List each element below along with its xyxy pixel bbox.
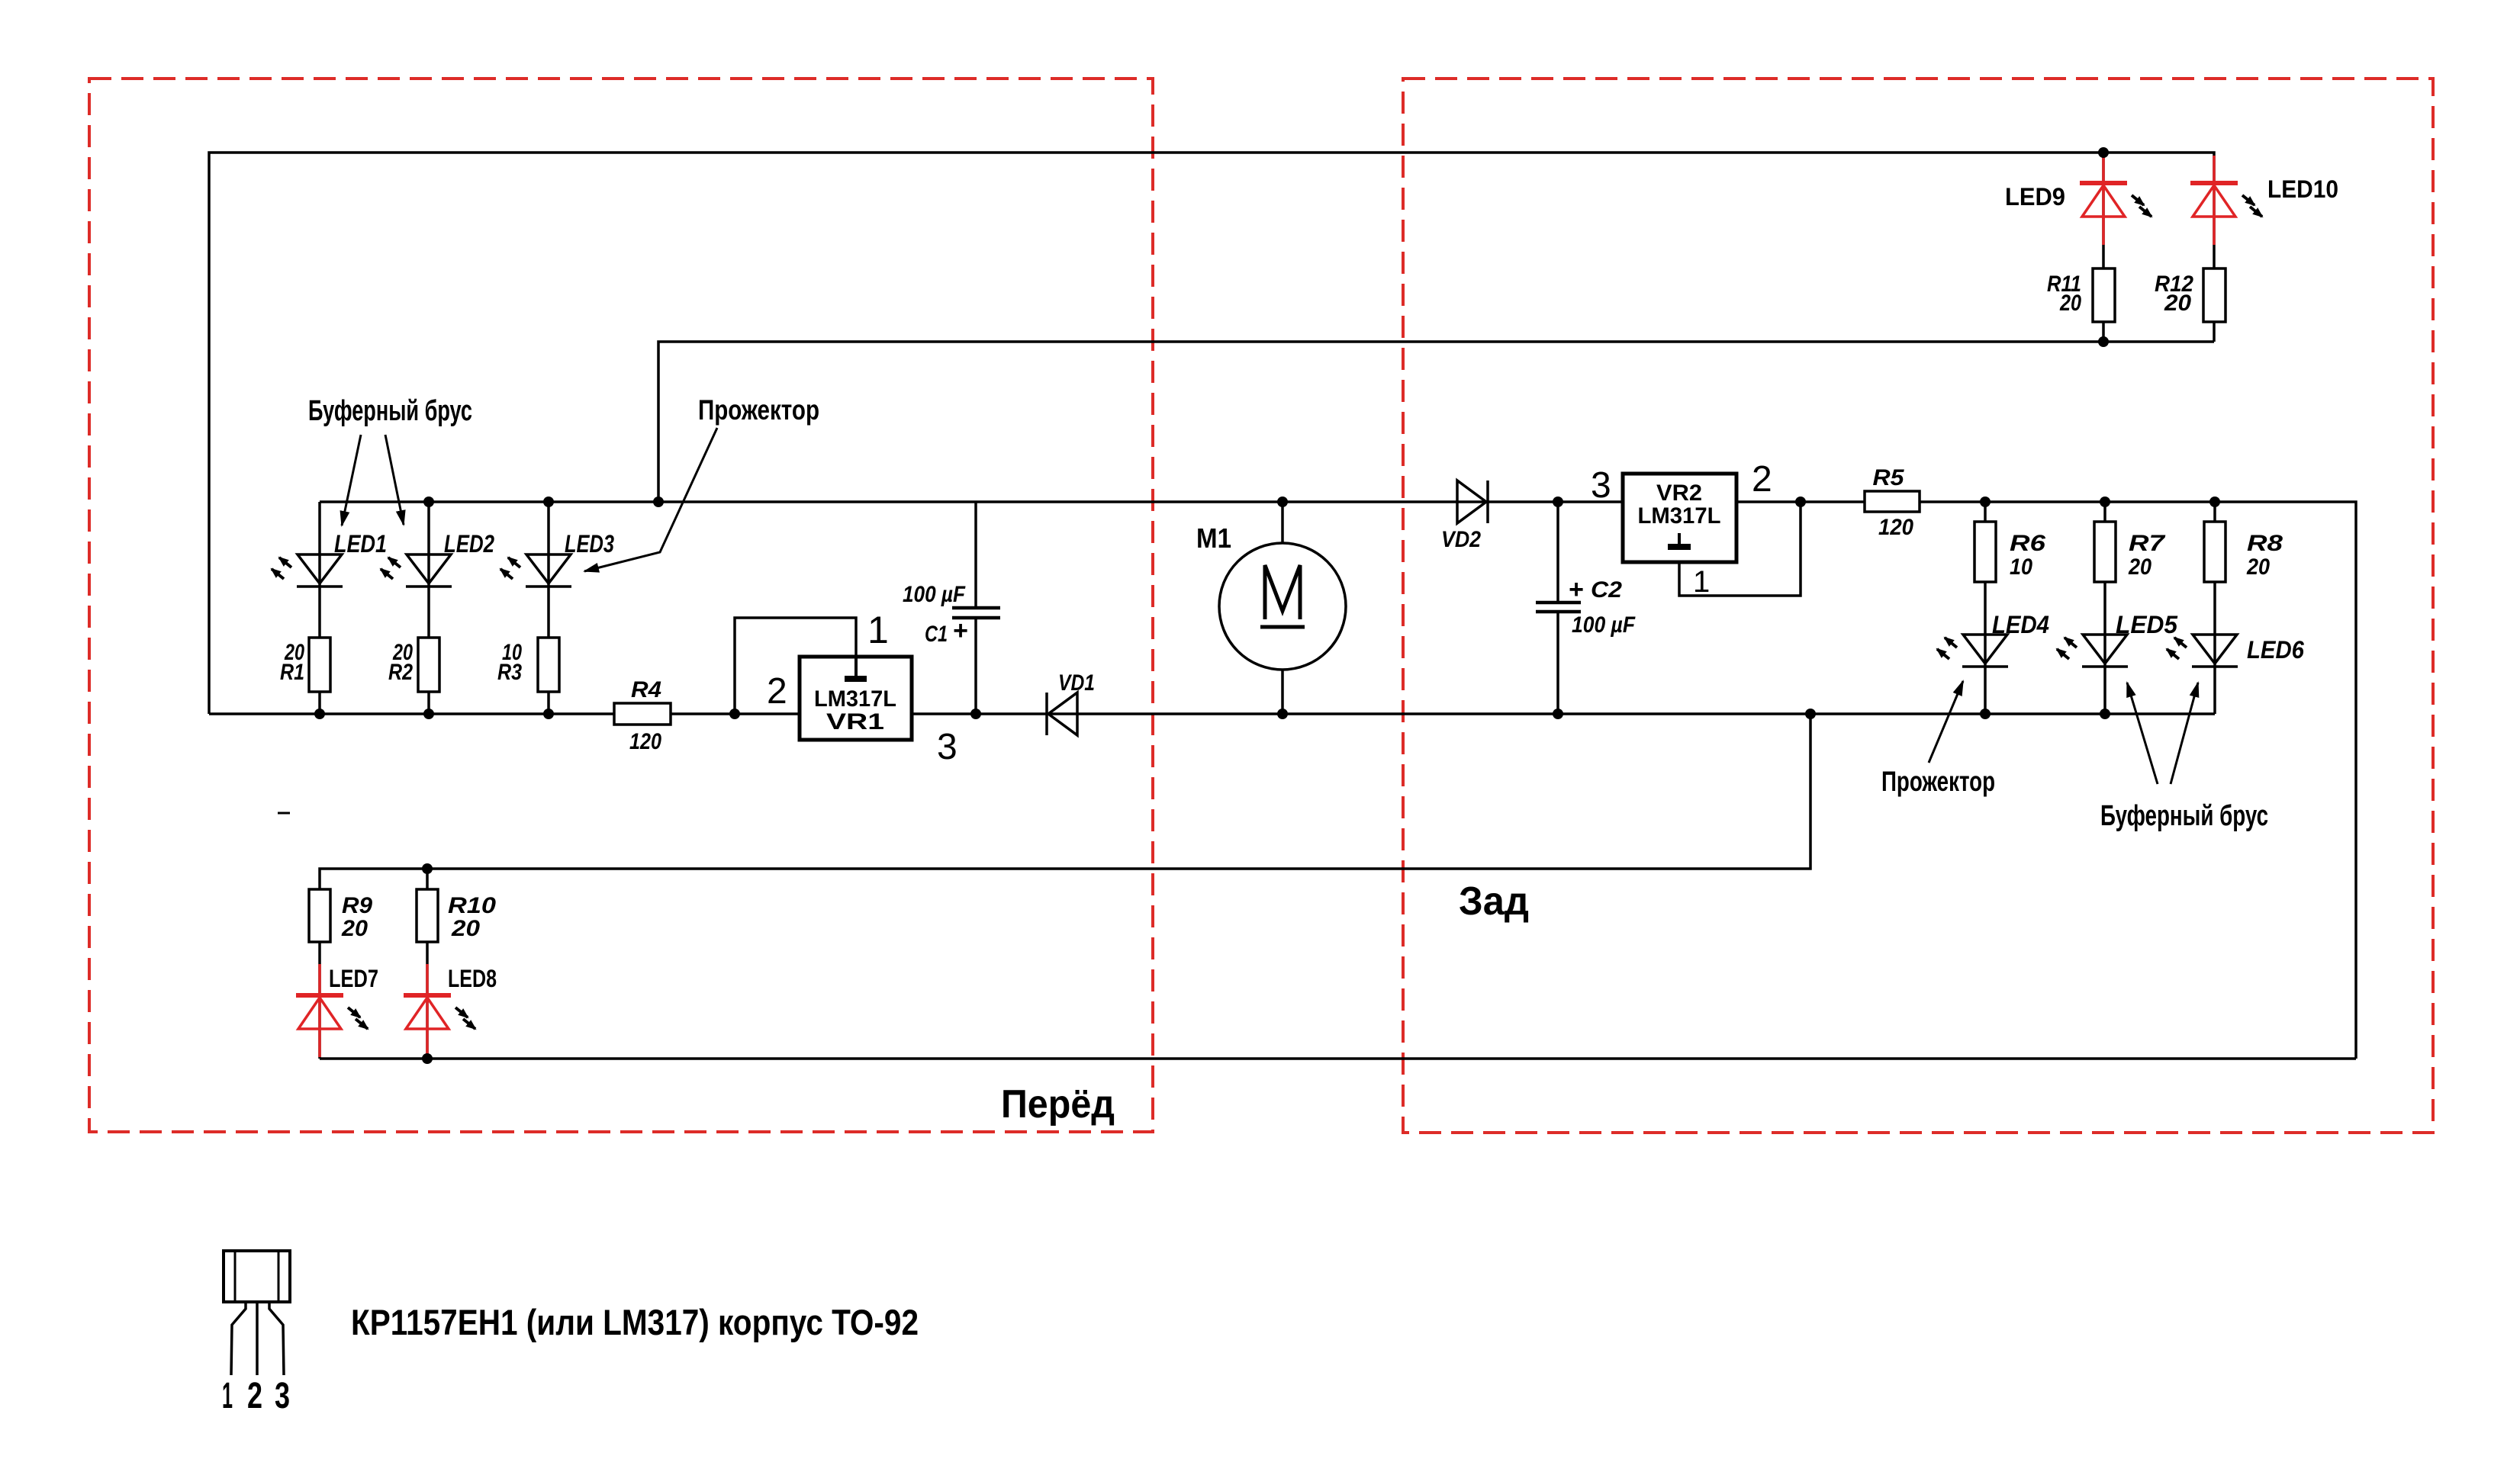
voltage regulator VR1 (LM317L) box [800,657,912,740]
LED LED2 [407,554,451,583]
pointer to LED5 [2127,683,2158,784]
wire: R8/LED6 column [2213,502,2216,714]
TO-92 pin 2 lead [256,1302,259,1375]
svg-text:LM317L: LM317L [814,686,896,712]
LED LED7 (red) [318,964,321,1057]
wire: LED3/R3 column [547,502,550,714]
svg-text:3: 3 [275,1376,290,1416]
svg-text:VD2: VD2 [1441,527,1481,552]
wire: rear feed down-left to R9/R10 branch [320,714,1810,1059]
svg-text:Перёд: Перёд [1001,1082,1115,1126]
wire: LED10 column lower part [2213,183,2216,342]
pointer to LED3 [584,428,717,571]
resistor R2 [418,638,439,692]
svg-text:1: 1 [1693,565,1710,599]
resistor R4 [614,703,671,725]
svg-text:VR2: VR2 [1656,480,1702,506]
motor M1 circle [1219,543,1346,670]
svg-text:C1: C1 [925,622,948,647]
LED LED5 [2083,635,2127,664]
wire: LED8 column [426,869,429,1059]
svg-text:R6: R6 [2010,531,2045,556]
svg-text:R4: R4 [631,677,661,702]
wire: LED2/R2 column [427,502,430,714]
LED LED8 (red) [426,964,429,1057]
svg-text:C2: C2 [1591,577,1622,603]
svg-text:20: 20 [451,916,480,941]
svg-text:+: + [953,616,968,645]
wire: VR1 adjust pin loop [735,618,856,714]
capacitor C1 plates [952,606,1000,610]
svg-text:Буферный брус: Буферный брус [2100,800,2268,832]
svg-text:20: 20 [2059,291,2081,316]
svg-text:LED7: LED7 [329,965,378,992]
svg-text:M1: M1 [1196,522,1231,554]
svg-text:R2: R2 [388,660,413,685]
svg-text:КР1157ЕН1 (или LM317) корпус Т: КР1157ЕН1 (или LM317) корпус ТО-92 [351,1302,919,1342]
wire: bottom rail [320,1057,2356,1060]
motor M letter [1265,565,1300,619]
wire: VR2 adjust pin loop [1679,502,1801,596]
svg-text:2: 2 [1752,459,1772,500]
wire: middle rail [209,712,2215,715]
svg-text:R1: R1 [280,660,304,685]
LED LED6 [2193,635,2237,664]
junction dots [2098,147,2109,158]
svg-text:LED6: LED6 [2247,636,2304,664]
svg-text:Буферный брус: Буферный брус [308,395,472,427]
wire: upper rail with right-side down link [320,502,2356,1059]
svg-text:LED1: LED1 [334,530,387,558]
svg-text:VR1: VR1 [826,709,884,734]
svg-text:3: 3 [1591,465,1611,506]
resistor R3 [538,638,559,692]
svg-text:R5: R5 [1873,465,1905,490]
wire: C1 column [974,502,977,608]
LED LED4 [1963,635,2007,664]
svg-text:100 µF: 100 µF [903,582,966,607]
resistor R11 [2093,268,2115,322]
resistor R5 [1865,491,1920,512]
svg-text:LED4: LED4 [1992,611,2049,638]
svg-text:LED2: LED2 [444,530,494,558]
capacitor C2 plates [1536,601,1581,605]
wire: R7/LED5 column [2103,502,2106,714]
svg-text:120: 120 [629,729,661,754]
wire: M1 column [1281,502,1284,714]
pointer to LED6 [2171,683,2198,784]
pointer to LED4 [1929,681,1963,763]
resistor R12 [2203,268,2226,322]
svg-text:LED3: LED3 [565,530,614,558]
TO-92 pin 1 lead [231,1302,246,1375]
resistor R1 [309,638,330,692]
resistor R9 [309,889,330,942]
wire: LED9 column [2102,153,2105,342]
svg-text:120: 120 [1878,515,1913,540]
wire: LED1/R1 column [318,502,321,714]
wire: C2 column [1556,502,1559,603]
wire: top feed bus from left rail to LED9/LED10 [209,153,2214,714]
svg-text:R7: R7 [2129,531,2166,556]
VR2 tab mark (pin 1) [1678,533,1681,545]
TO-92 package body [224,1251,290,1302]
resistor R10 [417,889,438,942]
svg-text:20: 20 [2128,554,2151,580]
front section boundary (red dashed box) [89,79,1153,1132]
resistor R6 [1974,522,1996,582]
svg-text:R9: R9 [342,893,372,918]
svg-text:20: 20 [2164,291,2191,316]
svg-text:LED9: LED9 [2005,183,2065,211]
rear section boundary (red dashed box) [1403,79,2433,1133]
diode VD1 [1048,693,1077,735]
svg-text:100 µF: 100 µF [1572,612,1636,638]
svg-text:Прожектор: Прожектор [698,394,819,426]
pointer to LED2 [385,435,404,525]
svg-text:20: 20 [341,916,368,941]
resistor R8 [2204,522,2226,582]
svg-text:R3: R3 [497,660,522,685]
LED LED1 [298,554,342,583]
svg-text:LED10: LED10 [2267,175,2338,203]
LED LED3 [526,554,571,583]
svg-text:2: 2 [247,1376,262,1416]
svg-text:Зад: Зад [1459,879,1529,924]
svg-text:2: 2 [767,671,787,712]
svg-text:1: 1 [222,1376,233,1416]
svg-text:R10: R10 [448,893,496,918]
svg-text:Прожектор: Прожектор [1881,766,1995,797]
svg-text:1: 1 [867,609,889,651]
svg-text:10: 10 [2010,554,2032,580]
wire: second bus (LED9/LED10 return to upper rail) [658,342,2214,502]
VR1 tab mark (pin 1) [854,658,858,677]
svg-text:20: 20 [2246,554,2270,580]
svg-text:LM317L: LM317L [1638,503,1721,529]
pointer to LED1 [342,435,361,525]
TO-92 pin 3 lead [269,1302,284,1375]
diode VD2 [1457,480,1486,523]
LED LED10 (red) [2213,156,2216,245]
svg-text:R8: R8 [2247,531,2283,556]
LED LED9 (red) [2102,156,2105,245]
svg-text:LED8: LED8 [448,965,497,992]
wire: R6/LED4 column [1984,502,1987,714]
svg-text:+: + [1569,575,1584,604]
svg-text:VD1: VD1 [1058,670,1095,696]
svg-text:3: 3 [937,727,957,767]
voltage regulator VR2 (LM317L) box [1623,474,1736,562]
svg-text:LED5: LED5 [2116,611,2178,638]
stray dash mark [278,812,290,815]
resistor R7 [2094,522,2116,582]
